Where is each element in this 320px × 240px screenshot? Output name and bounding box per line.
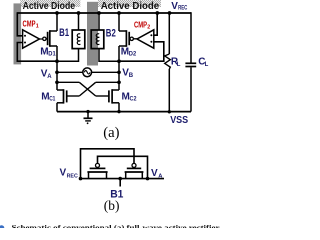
- resistor RL lead top: [168, 13, 170, 54]
- wire cross-couple VB horizontal: [96, 81, 119, 83]
- figure b: right PMOS channel bar: [125, 171, 144, 173]
- svg-text:V: V: [151, 168, 158, 179]
- figure b: left PMOS gate bubble: [96, 163, 100, 167]
- transistor MC1 gate bar: [66, 90, 68, 102]
- figure b: left PMOS gate bar: [90, 167, 106, 169]
- B2 box squiggle: [96, 34, 99, 45]
- svg-text:(a): (a): [103, 125, 119, 141]
- svg-text:B2: B2: [106, 27, 116, 39]
- node dots on VSS rail: [86, 110, 89, 113]
- svg-text:C2: C2: [130, 96, 137, 103]
- AC source circle: [83, 68, 92, 77]
- transistor MD2 channel bar: [125, 30, 127, 47]
- transistor MD2 drain stub: [119, 30, 126, 32]
- op-amp CMP1 comparator triangle: [23, 30, 40, 48]
- wire cross diagonal VA to MC2 gate: [79, 82, 95, 96]
- svg-text:A: A: [47, 74, 52, 80]
- figure b: right PMOS source lead: [125, 172, 127, 178]
- figure b: right PMOS drain lead: [141, 172, 143, 178]
- wire MC2 source to VSS: [118, 103, 120, 112]
- wire VREC top rail: [17, 12, 191, 14]
- svg-text:V: V: [60, 168, 67, 179]
- node dots on VREC rail: [55, 11, 59, 15]
- box B2: [91, 30, 104, 49]
- figure b: left PMOS channel bar: [87, 171, 107, 173]
- wire MD1 drain to VREC rail: [56, 13, 58, 31]
- wire AC source between VA and VB: [57, 71, 119, 73]
- wire B1 box bottom to VA: [57, 49, 79, 62]
- shaded highlight strip (right active diode title): [98, 0, 161, 7]
- svg-text:VSS: VSS: [170, 115, 188, 126]
- transistor MC1 drain stub: [57, 89, 64, 91]
- capacitor CL lead top: [190, 12, 192, 62]
- CMP2 input dots: [150, 34, 152, 36]
- wire MD2 source down to VB: [118, 46, 120, 61]
- svg-text:D2: D2: [129, 51, 137, 58]
- wire CMP1 bottom input to VA: [17, 43, 57, 62]
- figure b: inner gate wire left gate to VA: [98, 156, 148, 178]
- wire B1 box to VREC rail: [78, 13, 80, 30]
- wire MD1 source down to VA: [56, 46, 58, 61]
- figure b: left PMOS drain lead: [106, 172, 108, 178]
- wire MC1 source to VSS: [56, 103, 58, 112]
- transistor MC2 gate bar: [108, 90, 110, 102]
- capacitor CL lead bottom: [190, 67, 192, 111]
- svg-text:B: B: [129, 73, 134, 79]
- figure b: B1 stub: [119, 179, 121, 187]
- wire CMP1 top input from VREC rail: [17, 12, 22, 36]
- shaded highlight strip (left active diode title): [20, 0, 80, 7]
- AC source sine: [84, 71, 90, 74]
- resistor RL zigzag: [165, 54, 171, 69]
- svg-text:(b): (b): [104, 198, 120, 213]
- wire MD2 drain to VREC rail: [118, 13, 120, 31]
- wire CMP2 output to MD2 gate: [129, 38, 137, 40]
- figure b: right PMOS gate bubble: [132, 163, 136, 167]
- figure b node dots: [79, 177, 83, 181]
- ground: [87, 112, 89, 118]
- CMP2 output bubble: [130, 37, 133, 40]
- transistor MD1 source stub: [50, 45, 57, 47]
- wire CMP2 bottom input to VB: [119, 42, 164, 61]
- transistor MD1 gate bar: [47, 32, 49, 45]
- wire B2 box bottom to VB: [99, 49, 119, 62]
- wire cross-couple VA horizontal: [57, 81, 79, 83]
- svg-text:D1: D1: [48, 51, 56, 58]
- capacitor CL plates: [185, 62, 196, 64]
- wire MC2 gate lead: [96, 95, 109, 97]
- transistor MC1 source stub: [57, 102, 64, 104]
- svg-text:Active Diode: Active Diode: [101, 1, 160, 12]
- wire VB column: [118, 61, 120, 90]
- svg-text:C1: C1: [49, 96, 56, 103]
- svg-text:L: L: [177, 62, 181, 68]
- svg-text:CMP: CMP: [23, 19, 36, 28]
- transistor MD2 source stub: [119, 45, 126, 47]
- transistor MD1 channel bar: [49, 30, 51, 47]
- svg-text:B1: B1: [59, 27, 69, 39]
- svg-text:CMP: CMP: [134, 21, 147, 30]
- shaded bar (left edge of left active diode): [14, 3, 22, 64]
- transistor MC2 channel bar: [111, 89, 113, 103]
- figure b: main wire VREC to VA: [80, 178, 164, 180]
- box B1: [72, 30, 85, 49]
- svg-text:Active Diode: Active Diode: [23, 1, 76, 12]
- wire CMP1 output to MD1 gate: [39, 38, 47, 40]
- svg-text:2: 2: [147, 25, 150, 31]
- svg-text:Schematic of conventional (a): Schematic of conventional (a) full-wave …: [12, 223, 221, 228]
- node dots on VA column: [55, 59, 59, 63]
- transistor MD1 drain stub: [50, 30, 57, 32]
- node dots on VB column: [117, 59, 121, 63]
- figure b: left PMOS source lead: [88, 172, 90, 178]
- transistor MC1 channel bar: [63, 89, 65, 103]
- wire cross diagonal VB to MC1 gate: [79, 82, 95, 96]
- transistor MD2 gate bar: [128, 32, 130, 45]
- transistor MC2 drain stub: [112, 89, 119, 91]
- svg-text:REC: REC: [67, 173, 79, 179]
- transistor MC2 source stub: [112, 102, 119, 104]
- wire MC1 gate lead: [67, 95, 80, 97]
- wire B2 box to VREC rail: [98, 13, 100, 30]
- figure b: right PMOS gate bar: [127, 167, 141, 169]
- shaded bar (between active diodes): [87, 2, 98, 66]
- CMP1 input dots: [24, 35, 26, 37]
- svg-text:L: L: [205, 62, 209, 68]
- resistor RL lead bottom: [168, 69, 170, 112]
- B1 box squiggle: [77, 34, 80, 45]
- bottom caption number: [0, 225, 4, 230]
- wire CMP2 top input from VREC rail: [154, 12, 157, 35]
- svg-text:1: 1: [36, 23, 39, 29]
- wire VSS bottom rail: [57, 111, 191, 113]
- CMP1 output bubble: [43, 37, 46, 40]
- figure b: outer gate wire VREC to right gate: [81, 149, 135, 179]
- wire VA column: [56, 61, 58, 90]
- svg-text:REC: REC: [178, 6, 188, 12]
- op-amp CMP2 comparator triangle: [137, 30, 154, 48]
